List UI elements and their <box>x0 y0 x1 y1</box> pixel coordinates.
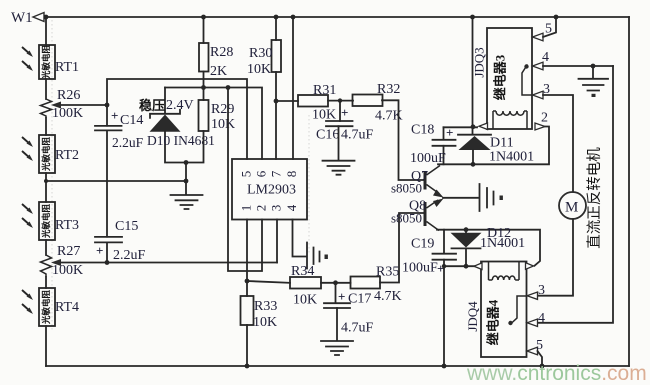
capacitor C15 <box>95 237 122 243</box>
junction: relay drive nodes <box>442 64 596 269</box>
wire: top rail down to LM2903 pin 8 <box>292 17 294 159</box>
svg-text:JDQ3: JDQ3 <box>471 47 486 77</box>
ground (emitters, sideways) <box>480 184 494 211</box>
wire: R31 to R32 junction <box>328 100 353 102</box>
svg-text:4.7uF: 4.7uF <box>341 128 374 143</box>
zener D10 <box>150 110 180 118</box>
capacitor C16 <box>339 101 341 121</box>
svg-text:3: 3 <box>538 283 545 298</box>
relay JDQ4 coil-left pin arrow <box>474 263 482 270</box>
svg-text:100uF: 100uF <box>402 261 438 276</box>
svg-text:s8050: s8050 <box>391 211 422 226</box>
svg-text:光敏电阻: 光敏电阻 <box>41 137 51 173</box>
wire: inverting input tap down left side of IC to pin 2 <box>228 88 262 272</box>
svg-text:+: + <box>96 243 103 258</box>
wire: right outer rail <box>628 17 630 366</box>
ground (mid-left) <box>171 195 203 209</box>
junction: top rail nodes <box>44 15 559 20</box>
resistor R28 <box>203 17 205 43</box>
svg-text:W1: W1 <box>11 10 33 26</box>
svg-text:R34: R34 <box>291 264 314 279</box>
wire: faint scan artifact dotted line <box>51 20 53 330</box>
svg-text:RT1: RT1 <box>55 60 79 75</box>
capacitor C18 <box>443 127 445 139</box>
ground (below C16) <box>323 161 355 175</box>
svg-text:1N4001: 1N4001 <box>480 236 525 251</box>
svg-text:R31: R31 <box>313 83 336 98</box>
potentiometer R27 <box>41 255 52 277</box>
wire: top rail down through D11 net <box>472 17 474 135</box>
ground (below C17) <box>321 341 353 355</box>
node W1 terminal arrow <box>33 13 44 22</box>
relay JDQ3 coil <box>493 111 527 129</box>
svg-text:2.2uF: 2.2uF <box>112 135 144 150</box>
relay JDQ4 box <box>481 262 527 358</box>
op-amp U1 LM2903 <box>232 159 307 220</box>
wire: reference net (zener top to R28/R29 junction and pin 6) <box>165 88 262 160</box>
svg-text:3: 3 <box>543 82 550 97</box>
wire: wiper node up and across to LM2903 pin 5 <box>107 79 247 159</box>
svg-text:7: 7 <box>268 170 283 177</box>
capacitor C14 <box>106 105 108 126</box>
wire: pin 3 down to R27 wiper net <box>276 220 278 263</box>
svg-text:10K: 10K <box>211 117 235 132</box>
svg-text:RT3: RT3 <box>55 218 79 233</box>
svg-text:6: 6 <box>253 170 268 177</box>
photoresistor RT3 <box>39 202 55 240</box>
svg-text:稳压: 稳压 <box>139 98 165 113</box>
wire: Q8 collector rail (top of C19/D12) to JDQ4 coil right <box>437 230 540 266</box>
svg-text:+: + <box>341 105 348 120</box>
resistor R31 <box>298 95 328 107</box>
wire: pin 1 output node <box>246 220 248 282</box>
svg-text:4: 4 <box>284 204 299 211</box>
svg-text:100K: 100K <box>52 263 83 278</box>
wire: pin7/R30 node across to R31 <box>276 100 298 102</box>
svg-text:继电器3: 继电器3 <box>492 54 507 100</box>
svg-text:R30: R30 <box>249 46 272 61</box>
wire: pin4 net down right side to relay JDQ4 pin 4 <box>538 66 613 323</box>
relay JDQ4 pin 5 arrow and wire to bottom rail <box>527 347 538 355</box>
relay JDQ3 pin 2 arrow <box>535 123 545 130</box>
svg-text:5: 5 <box>545 22 552 37</box>
junction: left chain nodes <box>44 103 188 265</box>
relay JDQ4 coil <box>489 262 520 280</box>
svg-text:D10 IN4681: D10 IN4681 <box>147 133 215 148</box>
relay JDQ3 coil-left pin arrow <box>479 123 488 130</box>
svg-text:JDQ4: JDQ4 <box>465 301 480 332</box>
wire: RT2/RT3 midpoint to ground node <box>46 180 186 182</box>
transistor Q7 s8050 <box>424 172 427 190</box>
svg-text:R28: R28 <box>210 45 233 60</box>
wire: output node to R34 <box>247 281 290 283</box>
relay JDQ4 coil-right pin arrow <box>526 263 534 270</box>
photoresistor RT4 <box>39 288 55 326</box>
svg-text:2.2uF: 2.2uF <box>113 248 146 263</box>
svg-text:R27: R27 <box>57 244 80 259</box>
svg-text:光敏电阻: 光敏电阻 <box>41 290 51 326</box>
svg-text:10K: 10K <box>253 315 277 330</box>
wire: joined emitters to sideways ground <box>443 197 478 199</box>
photoresistor RT2 <box>39 135 55 173</box>
resistor R32 <box>353 95 383 107</box>
wire: C15 bottom to pin3 net <box>106 242 108 262</box>
svg-text:M: M <box>565 200 578 216</box>
svg-text:www.cntronics.com: www.cntronics.com <box>466 362 647 385</box>
wire: R32 to Q7 base <box>382 100 424 180</box>
motor M <box>559 192 586 219</box>
svg-text:C16: C16 <box>316 128 339 143</box>
wire: left sensor chain vertical <box>45 17 47 366</box>
svg-text:4.7K: 4.7K <box>374 289 402 304</box>
diode D12 1N4001 <box>451 233 482 248</box>
svg-text:R26: R26 <box>57 88 80 103</box>
svg-text:2: 2 <box>253 205 268 212</box>
ground (pin 4, sideways) <box>307 243 320 269</box>
wire: top supply rail <box>44 16 629 18</box>
transistor Q8 s8050 <box>424 202 427 226</box>
wire: R27 wiper to comparator input (pin 3 net) <box>56 262 277 264</box>
svg-text:10K: 10K <box>247 62 271 77</box>
resistor R30 <box>275 17 277 40</box>
relay JDQ3 box <box>487 28 532 129</box>
svg-text:3: 3 <box>268 205 283 212</box>
svg-text:C18: C18 <box>411 123 434 138</box>
wire: bottom return rail <box>46 365 629 367</box>
relay JDQ4 pin 3 arrow <box>527 292 538 299</box>
wire: R26 wiper to C14 node <box>56 104 107 106</box>
svg-text:LM2903: LM2903 <box>247 183 296 198</box>
wire: motor bottom to relay JDQ4 pin 3 <box>538 219 573 296</box>
resistor R29 <box>199 100 209 131</box>
svg-text:C15: C15 <box>115 219 138 234</box>
wire: R35 up to Q8 base <box>380 213 424 283</box>
svg-text:4: 4 <box>542 50 549 65</box>
wire: C19 bottom rail down to bottom rail <box>443 266 445 366</box>
svg-text:光敏电阻: 光敏电阻 <box>41 45 51 81</box>
junction: reference net nodes <box>201 85 278 103</box>
svg-text:+: + <box>111 108 118 123</box>
svg-text:4.7uF: 4.7uF <box>341 321 374 336</box>
svg-text:+: + <box>338 289 345 304</box>
svg-text:5: 5 <box>238 171 253 178</box>
wire: R34 to R35 junction <box>321 282 351 284</box>
svg-text:2: 2 <box>541 111 548 126</box>
wire: pin 4 to sideways ground <box>293 220 307 257</box>
svg-text:1: 1 <box>238 205 253 212</box>
relay JDQ4 switch lever <box>511 296 528 324</box>
svg-text:R29: R29 <box>211 102 234 117</box>
svg-text:RT4: RT4 <box>55 300 79 315</box>
svg-text:8: 8 <box>284 171 299 178</box>
svg-text:5: 5 <box>536 338 543 353</box>
relay JDQ3 pin 4 arrow and wire <box>533 62 544 70</box>
svg-text:R33: R33 <box>254 299 277 314</box>
capacitor C19 <box>443 230 445 254</box>
svg-text:2K: 2K <box>210 64 227 79</box>
svg-text:s8050: s8050 <box>391 181 422 196</box>
svg-text:C14: C14 <box>120 113 143 128</box>
svg-text:10K: 10K <box>293 293 317 308</box>
wire: faint scan artifact dotted line right of IC <box>308 115 310 255</box>
svg-text:4: 4 <box>538 311 545 326</box>
ground (pin 4 net) <box>592 66 594 78</box>
wire: C14 bottom down to C15 top <box>106 130 108 236</box>
relay JDQ3 switch lever <box>522 65 532 96</box>
svg-text:R35: R35 <box>376 265 399 280</box>
photoresistor RT1 <box>39 45 55 79</box>
svg-text:C17: C17 <box>348 292 371 307</box>
relay JDQ3 pin 3 arrow and wire to motor <box>533 91 544 99</box>
relay JDQ4 pin 4 arrow <box>527 319 538 327</box>
diode D11 1N4001 <box>458 134 491 136</box>
junction: output and RC nodes <box>245 98 343 285</box>
svg-text:RT2: RT2 <box>55 148 79 163</box>
svg-text:1N4001: 1N4001 <box>489 150 534 165</box>
svg-text:2.4V: 2.4V <box>166 98 194 113</box>
resistor R35 <box>351 277 381 289</box>
svg-text:继电器4: 继电器4 <box>485 299 500 345</box>
potentiometer R26 <box>41 99 52 118</box>
wire: Q7 collector rail (bottom of C18/D11) to pin2 loop <box>438 127 549 165</box>
svg-text:C19: C19 <box>411 237 434 252</box>
wire: R29 bottom to ground node <box>186 131 204 163</box>
svg-text:D11: D11 <box>490 136 514 151</box>
zener D10 top lead <box>164 88 166 114</box>
wire: relay3 drive rail (top, to coil and pin2 arrow) <box>444 126 478 128</box>
svg-text:直流正反转电机: 直流正反转电机 <box>586 147 603 249</box>
resistor R33 <box>246 281 248 296</box>
wire: C19/D12 bottom rail to JDQ4 coil left <box>444 265 476 267</box>
relay JDQ3 pin 5 arrow and wire to top rail <box>533 33 544 41</box>
junction: bottom rail nodes <box>245 364 545 369</box>
svg-text:100K: 100K <box>52 106 83 121</box>
capacitor C17 <box>335 283 337 303</box>
wire: ground stub at divider midpoint <box>185 163 187 195</box>
svg-text:R32: R32 <box>377 82 400 97</box>
svg-text:光敏电阻: 光敏电阻 <box>41 204 51 240</box>
resistor R34 <box>290 277 321 289</box>
